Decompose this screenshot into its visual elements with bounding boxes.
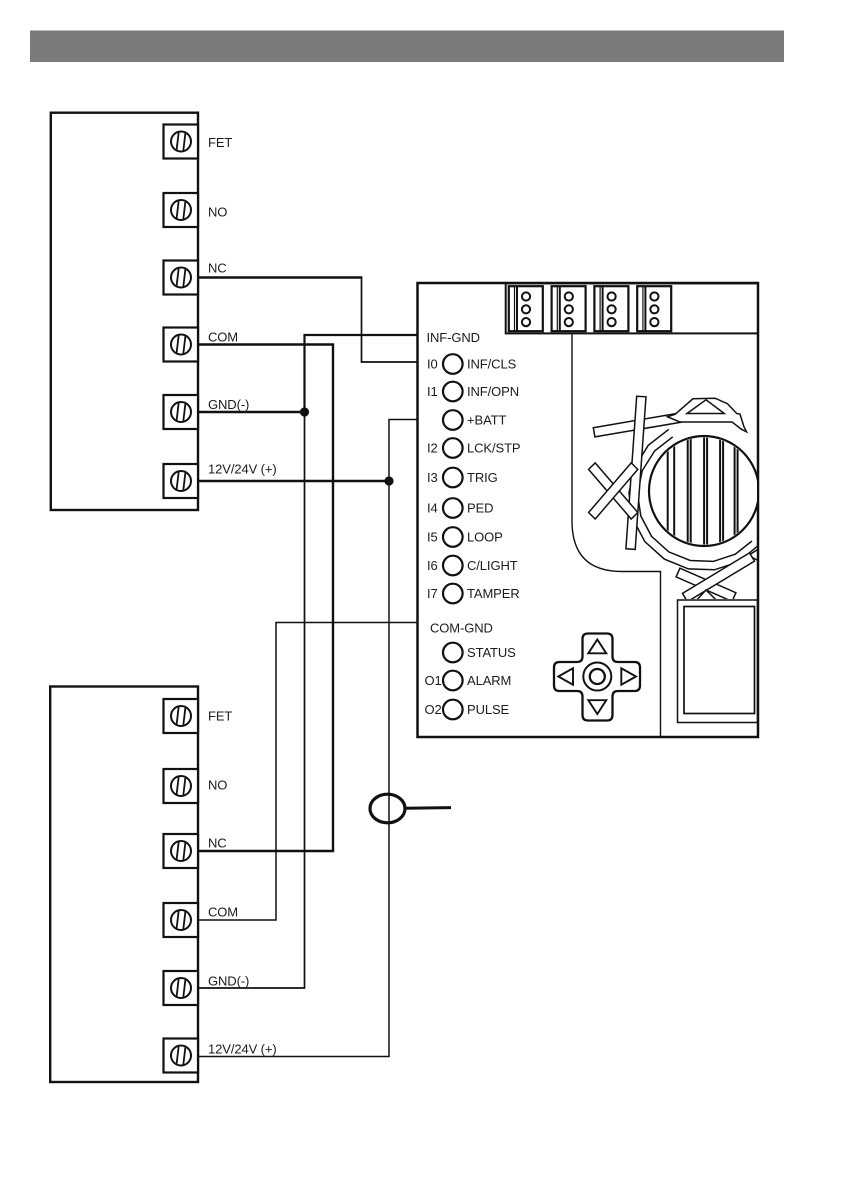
svg-text:I6: I6	[427, 558, 438, 573]
loop detector symbol	[370, 794, 405, 823]
LED/input I3 TRIG	[427, 468, 498, 488]
LED/input I4 PED	[427, 498, 493, 518]
control board U1	[418, 283, 759, 737]
wire: top GND(-) to INF-GND and bottom GND(-)	[198, 411, 305, 413]
screw terminal FET	[164, 699, 199, 733]
svg-text:INF/OPN: INF/OPN	[467, 384, 519, 399]
LED/input I7 TAMPER	[427, 584, 520, 604]
svg-text:I7: I7	[427, 586, 438, 601]
screw terminal NC	[164, 834, 199, 868]
connector J1	[509, 286, 543, 331]
logo ring band	[629, 429, 758, 570]
svg-text:I4: I4	[427, 501, 438, 516]
svg-text:TAMPER: TAMPER	[467, 586, 520, 601]
svg-text:ALARM: ALARM	[467, 673, 511, 688]
svg-text:I3: I3	[427, 470, 438, 485]
svg-text:PED: PED	[467, 501, 493, 516]
LED/input BATT +BATT	[443, 410, 507, 430]
svg-text:I0: I0	[427, 357, 438, 372]
logo pennant flag	[668, 398, 747, 432]
logo hatched circle	[649, 436, 759, 546]
header bar	[30, 31, 784, 63]
screw terminal 12V/24V (+)	[164, 464, 199, 498]
wire: top NC to I0 INF/CLS	[198, 276, 362, 279]
LED/input I5 LOOP	[427, 527, 503, 547]
svg-text:12V/24V (+): 12V/24V (+)	[208, 1042, 277, 1057]
LED/input I2 LCK/STP	[427, 438, 520, 458]
relay terminal block K2	[50, 687, 198, 1083]
screw terminal COM	[164, 903, 199, 937]
screw terminal FET	[164, 125, 199, 159]
LED/input I1 INF/OPN	[427, 382, 519, 402]
svg-text:I2: I2	[427, 441, 438, 456]
logo lower bowtie	[676, 549, 759, 602]
svg-text:GND(-): GND(-)	[208, 974, 249, 989]
LED/output STATUS	[443, 643, 516, 663]
screw terminal COM	[164, 328, 199, 362]
logo small X	[589, 463, 638, 519]
svg-text:INF/CLS: INF/CLS	[467, 357, 517, 372]
svg-text:INF-GND: INF-GND	[427, 330, 480, 345]
svg-text:COM-GND: COM-GND	[430, 621, 493, 636]
svg-text:12V/24V (+): 12V/24V (+)	[208, 462, 277, 477]
wire: bottom COM to COM-GND	[198, 623, 418, 921]
LED/input I0 INF/CLS	[427, 354, 517, 374]
screw terminal GND(-)	[164, 395, 199, 429]
connector strip	[506, 283, 758, 333]
logo X bars	[593, 396, 681, 549]
svg-text:+BATT: +BATT	[467, 413, 507, 428]
logo boundary curve	[572, 334, 661, 736]
svg-text:O1: O1	[425, 673, 442, 688]
svg-text:STATUS: STATUS	[467, 645, 516, 660]
svg-text:TRIG: TRIG	[467, 470, 498, 485]
svg-text:I5: I5	[427, 530, 438, 545]
screw terminal 12V/24V (+)	[164, 1039, 199, 1073]
svg-text:FET: FET	[208, 135, 232, 150]
svg-text:LOOP: LOOP	[467, 530, 503, 545]
screw terminal NO	[164, 193, 199, 227]
svg-text:NC: NC	[208, 261, 227, 276]
svg-text:I1: I1	[427, 384, 438, 399]
svg-text:NO: NO	[208, 205, 227, 220]
wire: top COM down to bottom NC	[198, 345, 333, 852]
D-pad navigation	[554, 634, 640, 721]
wire: top 12V/24V to +BATT and bottom 12V/24V	[198, 480, 389, 482]
display window	[678, 600, 758, 723]
LED/output O1 ALARM	[425, 671, 512, 691]
connector J3	[594, 286, 628, 331]
svg-text:NO: NO	[208, 778, 227, 793]
screw terminal NO	[164, 769, 199, 803]
svg-text:PULSE: PULSE	[467, 702, 510, 717]
relay terminal block K1	[51, 113, 198, 510]
LED/output O2 PULSE	[425, 700, 510, 720]
svg-text:O2: O2	[425, 702, 442, 717]
screw terminal NC	[164, 261, 199, 295]
svg-text:LCK/STP: LCK/STP	[467, 441, 520, 456]
decorative logo artwork	[572, 334, 759, 736]
svg-text:NC: NC	[208, 836, 227, 851]
connector J2	[552, 286, 586, 331]
svg-text:C/LIGHT: C/LIGHT	[467, 558, 518, 573]
svg-text:COM: COM	[208, 330, 238, 345]
junction 12V node	[384, 476, 393, 485]
connector J4	[637, 286, 671, 331]
svg-text:GND(-): GND(-)	[208, 397, 249, 412]
svg-text:COM: COM	[208, 905, 238, 920]
svg-text:FET: FET	[208, 709, 232, 724]
screw terminal GND(-)	[164, 971, 199, 1005]
LED/input I6 C/LIGHT	[427, 556, 518, 576]
junction GND node	[300, 407, 309, 416]
